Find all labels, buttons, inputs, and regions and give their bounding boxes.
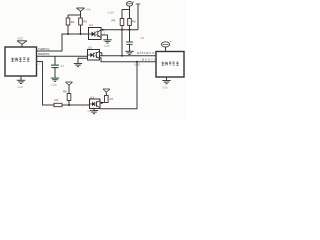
svg-text:R1: R1 [71,20,75,24]
svg-text:R3: R3 [55,98,59,102]
svg-text:R6: R6 [63,90,67,94]
svg-text:GND: GND [18,86,24,89]
svg-text:C2: C2 [141,36,145,40]
svg-text:R2: R2 [83,20,87,24]
svg-text:R7: R7 [110,97,114,101]
svg-text:GND: GND [52,84,58,87]
svg-text:GND: GND [88,110,94,113]
svg-text:BUSY1: BUSY1 [142,57,156,61]
svg-text:TxD(P3.1): TxD(P3.1) [38,47,50,51]
svg-text:GND: GND [162,86,168,90]
svg-text:VCC: VCC [18,37,24,41]
svg-text:+12V: +12V [108,11,115,15]
svg-text:+5V: +5V [86,7,91,11]
svg-text:U2: U2 [88,46,92,50]
svg-text:GND: GND [104,45,110,48]
svg-text:C1: C1 [60,64,64,68]
svg-text:R5: R5 [132,20,136,24]
svg-text:P1.0: P1.0 [36,63,42,66]
svg-text:RxD(P3.0): RxD(P3.0) [38,52,50,56]
svg-text:U1: U1 [89,23,93,27]
svg-text:R4: R4 [112,18,116,22]
svg-text:DAT0(P1.0): DAT0(P1.0) [137,51,156,55]
